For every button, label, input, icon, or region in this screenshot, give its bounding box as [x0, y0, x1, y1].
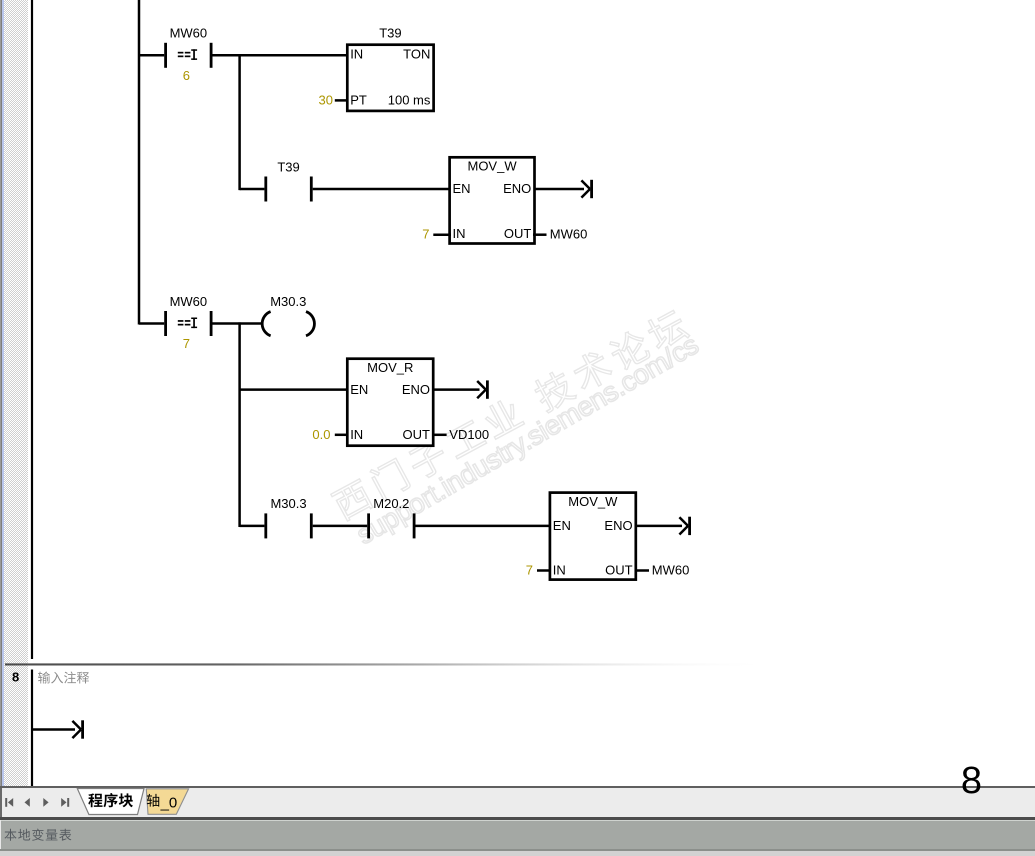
ENO output wire	[535, 188, 584, 191]
open wire arrow	[581, 180, 593, 198]
svg-text:T39: T39	[277, 159, 299, 174]
contact MW60	[164, 294, 212, 351]
svg-text:EN: EN	[453, 181, 471, 196]
svg-text:M30.3: M30.3	[270, 496, 306, 511]
svg-text:PT: PT	[350, 93, 367, 108]
watermark line 1: 西门子工业 技术论坛	[330, 307, 691, 523]
nav next button	[43, 798, 48, 807]
contact M20.2	[367, 496, 415, 538]
branch rail rung1 down to rung1b	[238, 54, 241, 190]
IN input stub	[433, 233, 451, 236]
tab 轴_0	[146, 789, 188, 815]
editor bottom border	[0, 786, 1035, 788]
contact M30.3	[264, 496, 312, 538]
network 8 comment 输入注释	[37, 669, 107, 689]
svg-text:ENO: ENO	[503, 181, 531, 196]
contact MW60	[164, 26, 212, 83]
wire rung2: contact to coil	[213, 322, 262, 325]
IN input stub	[335, 434, 349, 437]
svg-text:VD100: VD100	[449, 427, 489, 442]
OUT output stub	[432, 434, 447, 437]
network 8 left power rail	[31, 670, 33, 787]
svg-text:TON: TON	[403, 46, 430, 61]
nav last button	[61, 798, 66, 807]
svg-text:30: 30	[319, 93, 333, 108]
svg-text:M20.2: M20.2	[373, 496, 409, 511]
ENO output wire	[435, 388, 480, 391]
network 7 rung connector rail	[138, 0, 141, 325]
svg-text:MW60: MW60	[170, 294, 208, 309]
wire rung2c: branch to M30.3 contact	[240, 525, 265, 528]
wire rung2b: branch to MOV_R EN	[240, 388, 349, 391]
svg-text:IN: IN	[350, 46, 363, 61]
box MOV_W (1)	[450, 157, 535, 243]
open wire arrow	[679, 517, 691, 535]
tab nav buttons	[0, 788, 80, 817]
tab bar	[0, 788, 1035, 817]
contact T39	[264, 159, 312, 201]
svg-text:IN: IN	[553, 562, 566, 577]
open wire arrow	[477, 380, 489, 398]
network 7 left power rail	[31, 0, 33, 659]
wire rung2c: M20.2 to MOV_W EN	[416, 525, 552, 528]
svg-text:MOV_R: MOV_R	[367, 360, 413, 375]
svg-text:8: 8	[12, 670, 19, 685]
svg-text:MW60: MW60	[170, 26, 208, 41]
PT input stub	[335, 99, 349, 102]
nav first button	[5, 798, 7, 807]
tab 程序块 (active)	[70, 787, 200, 817]
IN input stub	[537, 569, 551, 572]
OUT output stub	[533, 233, 547, 236]
svg-text:OUT: OUT	[605, 562, 633, 577]
svg-text:MOV_W: MOV_W	[467, 159, 517, 174]
svg-text:_0: _0	[160, 794, 178, 811]
svg-text:OUT: OUT	[403, 427, 431, 442]
page number 8	[940, 756, 1010, 801]
coil M30.3	[262, 294, 314, 336]
wire rung1: contact to T39 box IN	[213, 54, 349, 57]
branch rail rung2 down to rung2c	[238, 322, 241, 527]
network 8 number label	[9, 668, 33, 688]
svg-text:7: 7	[422, 227, 429, 242]
box MOV_W (2)	[550, 493, 636, 580]
page margin checker strip	[4, 0, 28, 786]
svg-text:EN: EN	[553, 518, 571, 533]
svg-text:OUT: OUT	[504, 226, 532, 241]
svg-text:0.0: 0.0	[312, 427, 330, 442]
wire rung1: rail to contact	[139, 54, 164, 57]
svg-text:7: 7	[526, 562, 533, 577]
nav prev button	[25, 798, 30, 807]
wire rung2c: M30.3 to M20.2	[313, 525, 368, 528]
svg-text:MW60: MW60	[652, 562, 690, 577]
svg-text:100 ms: 100 ms	[388, 93, 431, 108]
svg-text:EN: EN	[350, 382, 368, 397]
wire rung1b: contact to MOV_W EN	[313, 188, 451, 191]
svg-text:ENO: ENO	[402, 382, 430, 397]
wire rung2: rail to contact	[139, 322, 164, 325]
status text 本地变量表	[3, 827, 93, 845]
svg-text:6: 6	[183, 68, 190, 83]
status panel	[0, 820, 1035, 851]
svg-text:T39: T39	[379, 25, 401, 40]
svg-text:7: 7	[183, 336, 190, 351]
network 8 open wire	[33, 728, 75, 731]
box MOV_R	[347, 359, 433, 446]
OUT output stub	[635, 569, 649, 572]
network separator line	[5, 663, 800, 665]
network 8 open wire arrow	[72, 720, 84, 738]
wire rung1b: branch to T39 contact	[240, 188, 265, 191]
svg-text:M30.3: M30.3	[270, 294, 306, 309]
ENO output wire	[635, 525, 682, 528]
svg-text:ENO: ENO	[604, 518, 632, 533]
svg-text:MOV_W: MOV_W	[568, 494, 618, 509]
left gutter shadow lines	[0, 0, 1, 786]
status panel bottom edge	[0, 849, 1035, 851]
box timer T39 TON	[347, 45, 433, 111]
svg-text:MW60: MW60	[550, 227, 588, 242]
tabbar bottom dark separator	[0, 817, 1035, 820]
svg-text:8: 8	[961, 760, 982, 801]
svg-text:IN: IN	[350, 427, 363, 442]
svg-text:IN: IN	[453, 226, 466, 241]
